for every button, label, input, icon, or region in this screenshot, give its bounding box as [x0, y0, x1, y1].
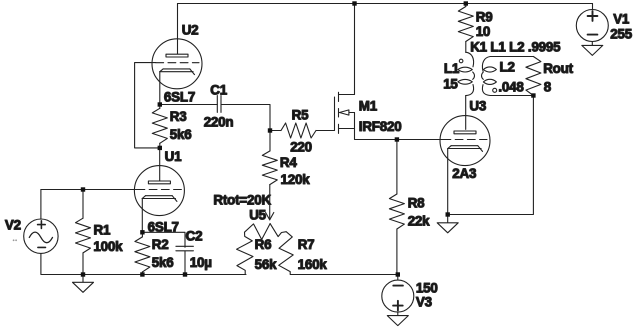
svg-text:10µ: 10µ	[190, 255, 212, 270]
svg-text:V3: V3	[416, 294, 432, 309]
svg-text:6SL7: 6SL7	[148, 220, 179, 235]
svg-text:C2: C2	[186, 228, 203, 243]
svg-text:150: 150	[416, 280, 438, 295]
svg-text:5k6: 5k6	[170, 127, 192, 142]
svg-text:R8: R8	[408, 196, 425, 211]
svg-text:C1: C1	[210, 83, 227, 98]
svg-text:8: 8	[544, 79, 552, 94]
svg-text:R2: R2	[152, 237, 169, 252]
svg-text:L2: L2	[500, 60, 515, 75]
svg-text:IRF820: IRF820	[359, 119, 402, 134]
svg-text:Rtot=20K: Rtot=20K	[213, 193, 271, 208]
svg-text:5k6: 5k6	[152, 255, 174, 270]
svg-text:10: 10	[476, 24, 491, 39]
svg-text:R9: R9	[476, 9, 493, 24]
svg-text:R6: R6	[255, 237, 272, 252]
svg-text:160k: 160k	[298, 257, 328, 272]
svg-text:255: 255	[610, 26, 632, 41]
svg-text:V2: V2	[5, 217, 21, 232]
svg-text:R5: R5	[292, 108, 309, 123]
svg-text:56k: 56k	[255, 257, 277, 272]
svg-text:2A3: 2A3	[452, 166, 476, 181]
svg-text:120k: 120k	[281, 172, 311, 187]
svg-text:R1: R1	[94, 223, 111, 238]
svg-text:100k: 100k	[93, 239, 123, 254]
svg-text:R4: R4	[280, 155, 297, 170]
svg-text:U3: U3	[469, 99, 486, 114]
svg-text:220: 220	[290, 140, 312, 155]
svg-text:L1: L1	[444, 61, 460, 76]
svg-text:22k: 22k	[408, 214, 430, 229]
svg-text:R7: R7	[298, 237, 315, 252]
svg-text:U2: U2	[182, 22, 199, 37]
svg-text:6SL7: 6SL7	[164, 90, 195, 105]
svg-text:.048: .048	[498, 80, 524, 95]
svg-text:K1 L1 L2 .9995: K1 L1 L2 .9995	[470, 40, 561, 55]
svg-text:V1: V1	[613, 11, 630, 26]
svg-text:R3: R3	[170, 109, 187, 124]
svg-text:220n: 220n	[204, 114, 234, 129]
svg-text:U5: U5	[249, 208, 266, 223]
svg-text:Rout: Rout	[543, 61, 573, 76]
svg-text:U1: U1	[165, 149, 182, 164]
svg-text:15: 15	[443, 77, 458, 92]
svg-text:M1: M1	[359, 98, 378, 113]
